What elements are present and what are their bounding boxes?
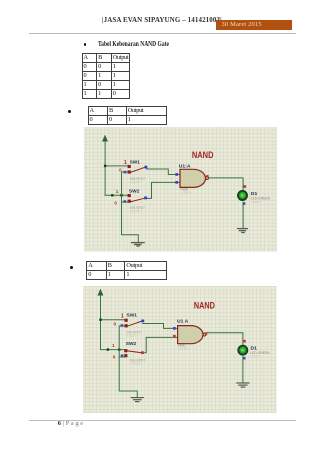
pin mark input A xyxy=(175,173,178,176)
power symbol xyxy=(102,136,107,142)
pin mark output xyxy=(205,333,207,335)
ground left xyxy=(132,398,144,402)
svg-text:SW2: SW2 xyxy=(129,189,140,195)
truth table full xyxy=(82,53,131,99)
svg-text:<TEXT>: <TEXT> xyxy=(251,355,263,359)
svg-text:1: 1 xyxy=(112,343,115,348)
wire output to LED xyxy=(208,178,242,191)
switch SW1 xyxy=(119,160,147,185)
wire to SW2 xyxy=(105,195,128,197)
svg-text:SW1: SW1 xyxy=(129,160,140,166)
svg-text:0: 0 xyxy=(119,168,122,173)
svg-text:NAND: NAND xyxy=(192,149,214,160)
wire to SW2 xyxy=(101,349,125,351)
wire power vertical xyxy=(104,142,106,196)
bullet 1 xyxy=(84,43,87,46)
wire SW2 throw stub xyxy=(121,201,128,203)
svg-text:0: 0 xyxy=(114,201,117,206)
svg-text:<TEXT>: <TEXT> xyxy=(180,191,192,195)
wire SW1 throw to ground xyxy=(120,326,138,397)
wire SW1 throw to ground xyxy=(121,172,138,242)
wire to SW1 xyxy=(101,319,125,321)
heading: Tabel Kebenaran NAND Gate xyxy=(98,40,169,48)
schematic 2 xyxy=(83,286,277,413)
footer page number xyxy=(58,420,83,427)
header rule xyxy=(29,33,296,34)
wire B input xyxy=(144,338,178,353)
junction node VCC-SW1 xyxy=(104,165,106,167)
switch SW2 xyxy=(112,341,146,366)
wire SW2 throw stub xyxy=(120,356,126,358)
ground right xyxy=(237,229,247,233)
bullet 3 xyxy=(70,266,73,269)
svg-text:U1:A: U1:A xyxy=(178,164,190,170)
bullet 2 xyxy=(68,110,71,113)
power symbol xyxy=(98,290,103,296)
svg-text:0: 0 xyxy=(114,321,117,326)
pin mark input B xyxy=(175,181,178,184)
wire B input xyxy=(147,183,180,199)
svg-text:1: 1 xyxy=(124,160,127,166)
svg-text:<TEXT>: <TEXT> xyxy=(129,210,141,214)
wire LED to ground xyxy=(242,357,244,383)
switch SW2 xyxy=(114,189,147,214)
NAND gate U1:A xyxy=(178,164,208,195)
svg-text:SW2: SW2 xyxy=(126,341,137,347)
svg-text:SW1: SW1 xyxy=(127,313,138,319)
header date box xyxy=(216,20,292,30)
wire A input xyxy=(143,324,178,329)
pin mark LED anode xyxy=(244,340,247,343)
svg-text:<TEXT>: <TEXT> xyxy=(129,181,141,185)
LED D1 xyxy=(237,191,270,205)
LED D1 xyxy=(238,345,270,358)
pin mark input B xyxy=(173,335,176,338)
junction node mid xyxy=(107,349,109,351)
switch SW1 xyxy=(114,313,145,339)
svg-text:<TEXT>: <TEXT> xyxy=(130,362,142,366)
pin mark input A xyxy=(173,327,176,330)
wire to SW1 xyxy=(105,165,128,167)
wire LED to ground xyxy=(242,203,244,229)
junction node VCC-SW1 xyxy=(100,319,102,321)
svg-text:NAND: NAND xyxy=(194,299,215,310)
svg-text:<TEXT>: <TEXT> xyxy=(178,347,190,351)
svg-text:1: 1 xyxy=(115,189,118,194)
svg-text:1: 1 xyxy=(121,314,124,320)
truth table row 01 xyxy=(86,261,166,280)
NAND gate U1:A xyxy=(177,318,206,351)
svg-text:<TEXT>: <TEXT> xyxy=(250,201,262,205)
ground right xyxy=(237,383,249,387)
pin mark LED cathode xyxy=(242,203,245,206)
pin mark LED anode xyxy=(243,186,246,189)
junction node cross xyxy=(118,349,120,351)
wire A input xyxy=(146,169,179,174)
svg-text:U1 A: U1 A xyxy=(177,318,189,324)
junction node mid xyxy=(111,194,113,196)
wire power vertical xyxy=(100,295,102,349)
wire output to LED xyxy=(206,333,243,345)
pin mark LED cathode xyxy=(243,357,246,360)
header title xyxy=(102,16,214,24)
truth table row 00 xyxy=(88,106,167,125)
footer rule xyxy=(29,420,296,421)
ground left xyxy=(131,243,144,246)
schematic 1 xyxy=(84,127,277,252)
junction node cross xyxy=(120,194,122,196)
pin mark output xyxy=(206,175,208,177)
svg-text:<TEXT>: <TEXT> xyxy=(127,334,139,338)
